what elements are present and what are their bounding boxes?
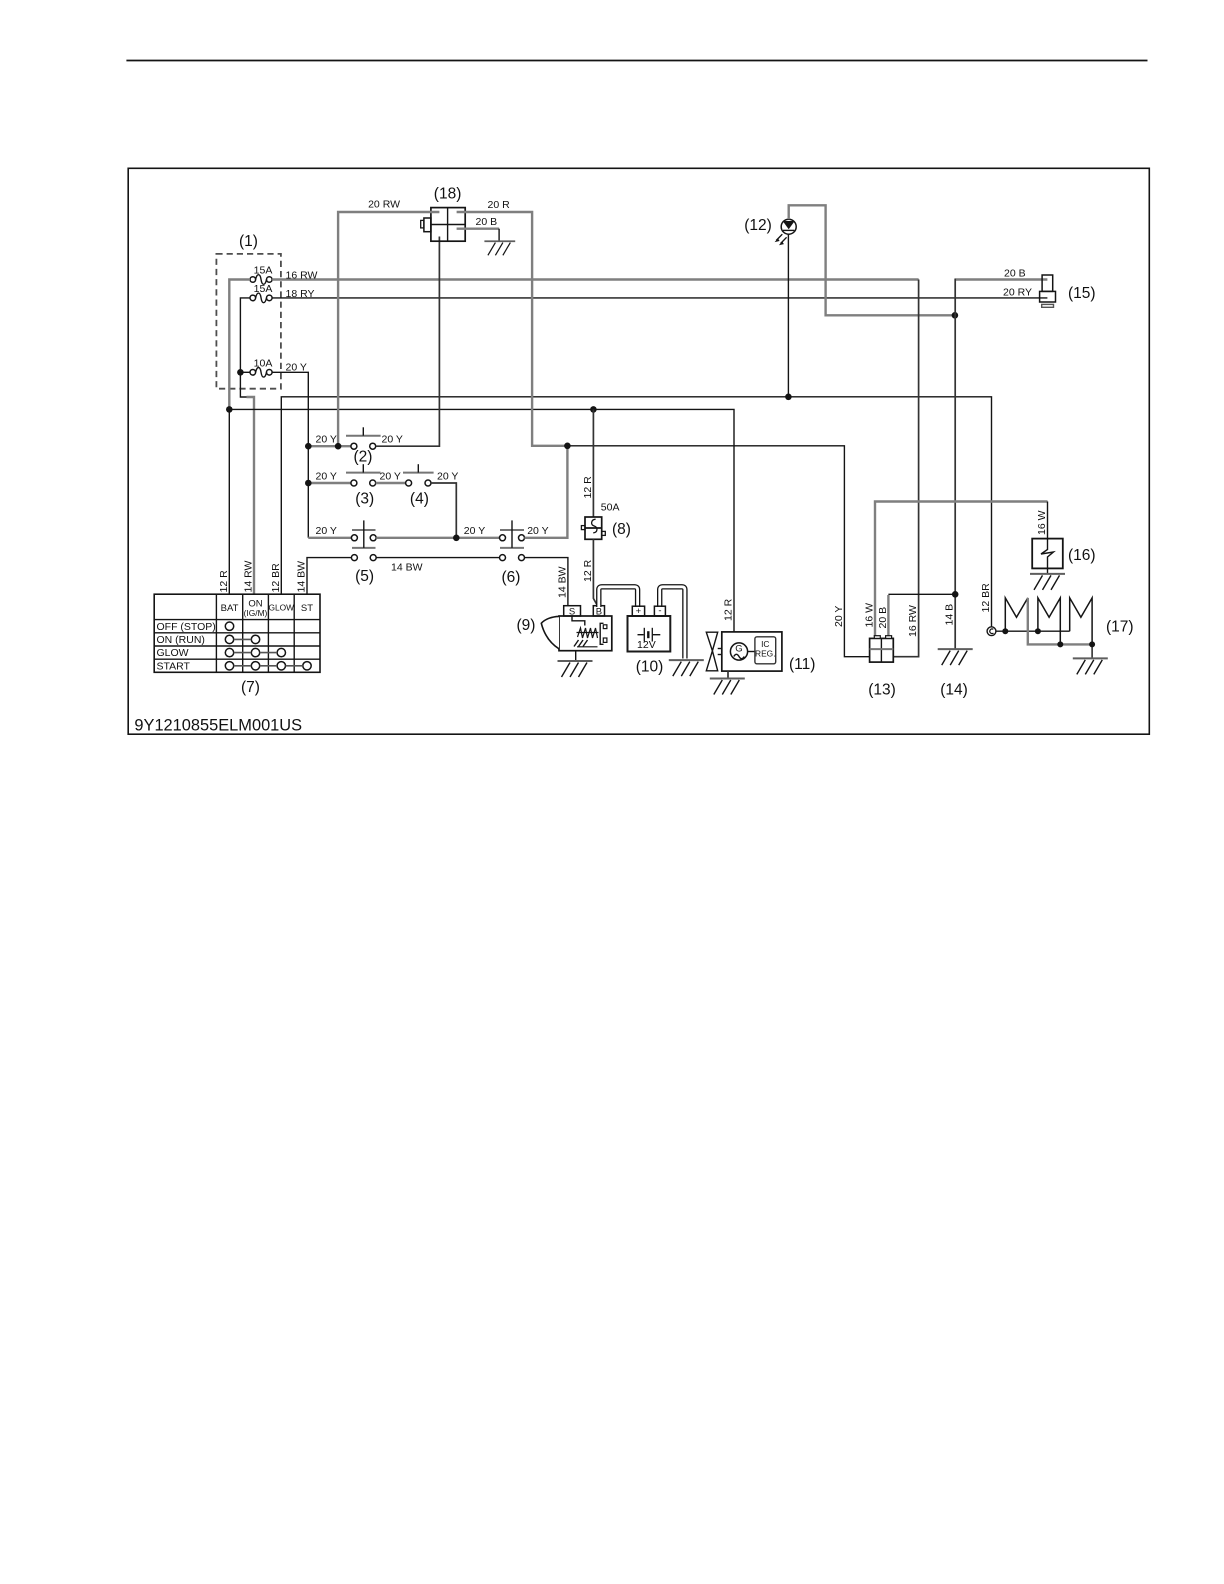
glow plug bus lower [1028,598,1092,645]
svg-text:14 B: 14 B [944,604,956,626]
fuse F3 10A [250,358,272,378]
node junction fuse F2/F3 left [237,369,244,376]
wire switch 4 output down to 20Y row [431,483,456,538]
svg-text:20 RW: 20 RW [368,199,400,211]
svg-text:ON (RUN): ON (RUN) [157,634,205,646]
svg-text:G: G [735,644,742,655]
svg-text:(3): (3) [355,491,374,508]
svg-text:+: + [636,606,642,617]
svg-text:(17): (17) [1106,619,1134,636]
svg-text:10A: 10A [254,358,273,370]
node 20Y at switch 3 input [305,480,312,487]
ground (battery) [669,660,704,676]
svg-text:20 Y: 20 Y [316,470,337,482]
svg-text:(5): (5) [355,568,374,585]
svg-text:20 Y: 20 Y [382,434,403,446]
wire charge lamp top lead to 20B net [789,205,955,315]
wire 20Y from fuse F3 down to switches [272,372,308,538]
fuse F1 15A [250,265,272,285]
svg-text:S: S [569,607,575,618]
node charge lamp to 12BR bus [785,394,792,401]
connector 13 [868,636,896,699]
svg-text:GLOW: GLOW [269,603,295,613]
fuse F2 15A [250,283,272,303]
svg-text:50A: 50A [601,502,620,514]
svg-text:OFF (STOP): OFF (STOP) [157,621,216,633]
svg-text:15A: 15A [254,283,273,295]
svg-text:(7): (7) [241,679,260,696]
svg-text:(4): (4) [410,491,429,508]
svg-text:(18): (18) [434,186,462,203]
wire F3 left lead [240,371,250,373]
svg-text:(14): (14) [940,682,968,699]
wire 16W from bus to connectors [875,502,1048,637]
svg-text:14 RW: 14 RW [243,561,255,593]
switch 6 (ganged) [500,520,525,586]
svg-text:20 Y: 20 Y [527,525,548,537]
node on 20B wire [952,312,959,319]
svg-text:16 W: 16 W [864,603,876,628]
wire 14RW vertical to key switch ON column [247,397,255,594]
svg-text:IC: IC [761,639,769,649]
svg-text:(12): (12) [744,217,772,234]
ground (relay 18) [484,241,515,255]
node 12R bus to 50A fuse [590,406,597,413]
svg-text:20 Y: 20 Y [464,525,485,537]
wire charge lamp bottom lead to 12BR bus [787,234,789,397]
node switch4 drop joins 20Y row [453,535,460,542]
svg-text:20 R: 20 R [488,199,511,211]
svg-text:(2): (2) [354,449,373,466]
connector 15 [1040,275,1096,307]
svg-text:(6): (6) [502,569,521,586]
wire 20Y row into switch 3 [308,482,351,484]
starter motor 9 [517,606,612,651]
svg-text:(10): (10) [636,659,664,676]
svg-text:14 BW: 14 BW [391,562,423,574]
wire 14BW from key switch ST up to switch 5 [307,558,351,595]
wire 12R down to 50A fuse [592,409,594,517]
wire 16RW bus from fuse F1 to right side [272,278,919,280]
svg-text:16 W: 16 W [1036,510,1048,535]
svg-text:12 BR: 12 BR [980,583,992,613]
svg-text:BAT: BAT [221,603,239,614]
svg-text:14 BW: 14 BW [296,561,308,593]
svg-text:15A: 15A [254,265,273,277]
wire 12BR bus to glow plugs [281,397,991,627]
wire 20Y row switch5 to switch6 [376,537,499,539]
svg-text:9Y1210855ELM001US: 9Y1210855ELM001US [134,717,302,735]
node 20Y at switch 2 input [305,443,312,450]
wire from switch 2 to relay 18 [376,237,440,447]
svg-text:12 R: 12 R [723,598,735,621]
svg-text:18 RY: 18 RY [286,288,315,300]
wire fuse F2 left lead down [240,298,250,372]
node 20B to ground wire [952,591,959,598]
wire 20B from relay 18 to ground [457,227,500,229]
wire 12R from junction down to key switch BAT [228,409,230,594]
glow plug G1 [1005,598,1028,631]
svg-text:12 R: 12 R [582,559,594,582]
switch 5 (ganged) [351,520,376,585]
svg-text:(15): (15) [1068,285,1096,302]
svg-text:12 R: 12 R [582,476,594,499]
svg-text:20 B: 20 B [877,607,889,629]
wire jog down from F2/F3 junction to 14RW column [240,372,247,397]
wire 12R bus to alternator [229,409,734,632]
svg-text:14 BW: 14 BW [556,566,568,598]
svg-text:ST: ST [301,603,313,614]
svg-text:12V: 12V [637,639,656,651]
wire 16W down to solenoid 16 [1047,502,1049,539]
svg-text:(9): (9) [517,617,536,634]
wire 20B from connector 15 down to ground 14 [955,278,1048,280]
svg-text:(8): (8) [612,521,631,538]
key switch contact rows [225,622,311,670]
wire 20R from relay 18 to 20Y/20R node [457,212,568,446]
svg-text:20 Y: 20 Y [316,434,337,446]
battery cable - to ground [660,587,685,659]
wire 16RW branch down to connector 13 [893,280,918,657]
wire 14BW switch6 output down to starter S [525,558,568,606]
svg-text:B: B [596,607,602,618]
glow plug bus upper [996,630,1070,632]
node junction at 12R bus left [226,406,233,413]
svg-text:20 B: 20 B [476,216,498,228]
wire switch 3 to switch 4 [376,482,406,484]
svg-text:(IG/M): (IG/M) [244,608,268,618]
svg-text:(11): (11) [789,656,815,673]
alternator 11 [706,632,815,673]
ground (alternator) [710,679,745,695]
relay 18 (glow plug timer) [421,186,466,242]
svg-text:16 RW: 16 RW [286,270,318,282]
wire solenoid 16 to ground [1047,568,1049,574]
svg-text:GLOW: GLOW [157,647,189,659]
switch 3 [346,464,381,507]
svg-text:(1): (1) [239,233,258,250]
key switch table (7) [154,594,320,696]
glow plug terminal [987,627,996,636]
ground (starter) [558,661,593,677]
wire 20Y row to switch 5 [308,537,351,539]
svg-text:16 RW: 16 RW [907,605,919,637]
wire fuse F1 left lead down to 12R bus [229,280,250,410]
ground (solenoid 16) [1030,574,1065,590]
svg-text:START: START [157,660,191,672]
wire alternator to ground [727,671,729,678]
fuse box (1) dashed outline [216,233,281,389]
wire glow bus to ground [1091,644,1093,658]
switch 2 (air heater switch) [346,427,381,465]
ground (glow plugs) [1073,658,1108,674]
switch 4 [403,464,434,507]
wire from 20R node right to connector 13 (20Y) [567,446,869,657]
wire 14BW row switch5 to switch6 [376,557,499,559]
node 20R junction [564,443,571,450]
charge lamp 12 [744,217,796,245]
wire starter case to ground [575,651,577,661]
fuse 8 (50A slow blow) [581,502,631,540]
svg-text:20 B: 20 B [1004,268,1026,280]
svg-text:12 BR: 12 BR [270,563,282,593]
wire 20RW from relay 18 down to switch 2 [338,212,439,446]
svg-text:20 Y: 20 Y [437,470,458,482]
node 20RW drop at switch 2 [335,443,342,450]
wire 12R from 50A fuse to starter B [593,539,597,605]
svg-text:(13): (13) [868,682,896,699]
svg-text:20 Y: 20 Y [833,606,845,627]
svg-text:(16): (16) [1068,547,1096,564]
wire 20Y switch6 output up to 20R node [525,446,568,538]
ground 14 [938,649,973,665]
svg-text:-: - [658,605,661,616]
solenoid 16 [1032,539,1095,569]
svg-text:20 RY: 20 RY [1003,287,1032,299]
svg-text:20 Y: 20 Y [380,470,401,482]
svg-text:20 Y: 20 Y [316,525,337,537]
glow plug G3 [1070,598,1092,645]
battery cable B to + [599,587,638,608]
battery 10 [628,605,671,675]
wire 18RY bus from fuse F2 to connector 15 [272,297,1047,299]
svg-text:REG.: REG. [755,649,775,659]
svg-text:20 Y: 20 Y [286,362,307,374]
wire 20Y row into switch 2 [308,445,351,447]
wire 20B link to connector 13 [887,595,889,636]
svg-text:12 R: 12 R [218,570,230,593]
glow plug G2 [1038,598,1060,645]
